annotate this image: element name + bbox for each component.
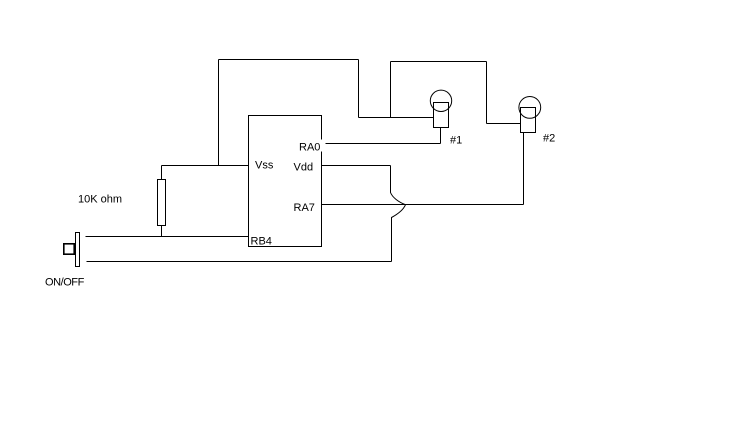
svg-text:10K ohm: 10K ohm <box>78 194 122 206</box>
wire vertical drop at x486 <box>486 62 488 124</box>
svg-text:#2: #2 <box>543 133 555 145</box>
lamp #1 bulb circle <box>430 90 451 111</box>
wire lamp #1 bottom vertical <box>440 128 442 144</box>
wire Vdd-to-lower-net vertical with crossover jog at RA7 <box>391 166 406 262</box>
wire resistor bottom stub <box>161 226 163 237</box>
wire vertical riser at x390 <box>390 62 392 118</box>
svg-text:RA0: RA0 <box>299 142 320 154</box>
svg-text:RA7: RA7 <box>294 202 315 214</box>
lamp #1 base rectangle <box>434 103 449 128</box>
wire vertical drop at x358 <box>358 60 360 118</box>
wire horizontal into lamp #2 left side <box>487 123 521 125</box>
wire Vdd pin horizontal <box>322 165 391 167</box>
svg-text:Vss: Vss <box>255 160 274 172</box>
wire lamp #2 bottom vertical to RA7 net <box>523 133 525 205</box>
svg-text:Vdd: Vdd <box>294 162 314 174</box>
wire Vss pin to resistor top node <box>162 165 249 167</box>
svg-text:#1: #1 <box>450 135 462 147</box>
wire resistor top stub <box>161 166 163 180</box>
wire RA7 net horizontal <box>322 204 524 206</box>
wire horizontal into lamp #1 left side <box>359 117 434 119</box>
lamp #2 bulb circle <box>519 97 541 119</box>
wire RA0 net horizontal <box>326 143 441 145</box>
svg-text:ON/OFF: ON/OFF <box>45 277 85 289</box>
wire top rail right segment <box>391 61 487 63</box>
switch S1 bar <box>76 233 80 267</box>
lamp #2 base rectangle <box>521 108 536 133</box>
node RA0 label white backing erasing IC edge <box>314 140 324 152</box>
wire top rail left segment <box>219 59 359 61</box>
switch S1 button <box>64 244 74 254</box>
svg-text:RB4: RB4 <box>251 236 272 248</box>
op-amp U1 : PIC microcontroller block <box>249 116 322 247</box>
wire left vertical from top rail down to Vss net <box>218 60 220 166</box>
resistor R1 10K <box>158 180 166 226</box>
wire RB4 net from switch to IC <box>86 236 249 238</box>
wire lower net from switch to jog vertical <box>87 261 392 263</box>
